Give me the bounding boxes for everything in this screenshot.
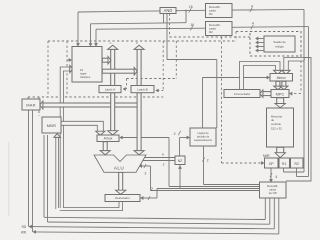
svg-text:Lógica de: Lógica de bbox=[197, 131, 209, 135]
svg-text:Incrementador: Incrementador bbox=[234, 92, 251, 96]
svg-text:Latch A: Latch A bbox=[105, 88, 116, 92]
svg-text:decisão de: decisão de bbox=[197, 134, 210, 138]
svg-text:MAR: MAR bbox=[26, 102, 36, 107]
svg-text:R1: R1 bbox=[282, 162, 286, 166]
svg-text:NZ: NZ bbox=[178, 159, 182, 163]
svg-text:Deslocador: Deslocador bbox=[115, 196, 130, 200]
svg-text:MIR: MIR bbox=[263, 154, 270, 158]
svg-text:2: 2 bbox=[174, 132, 176, 136]
svg-text:OP: OP bbox=[269, 162, 275, 166]
svg-text:16: 16 bbox=[190, 23, 194, 27]
svg-text:2: 2 bbox=[144, 171, 146, 175]
svg-text:WR: WR bbox=[21, 230, 27, 234]
svg-text:B: B bbox=[136, 41, 138, 45]
svg-text:2: 2 bbox=[207, 159, 209, 163]
svg-text:ALU: ALU bbox=[114, 165, 124, 170]
svg-text:controle: controle bbox=[271, 122, 281, 126]
svg-text:A: A bbox=[110, 41, 112, 45]
svg-text:Mmux: Mmux bbox=[277, 76, 287, 80]
svg-text:relógio: relógio bbox=[275, 45, 284, 49]
svg-text:AND: AND bbox=[164, 8, 173, 13]
svg-text:MPC: MPC bbox=[276, 91, 285, 96]
svg-text:Z: Z bbox=[163, 162, 165, 166]
svg-text:MBR: MBR bbox=[47, 123, 57, 128]
svg-text:Amux: Amux bbox=[104, 137, 113, 141]
svg-text:de OP: de OP bbox=[269, 191, 277, 195]
svg-text:R1: R1 bbox=[209, 12, 213, 16]
svg-text:512 x 32: 512 x 32 bbox=[271, 126, 282, 130]
svg-text:16: 16 bbox=[189, 5, 193, 9]
svg-text:seqüenciamento: seqüenciamento bbox=[194, 139, 213, 142]
svg-text:4: 4 bbox=[252, 22, 254, 26]
svg-text:tradores: tradores bbox=[80, 75, 91, 79]
svg-text:Latch B: Latch B bbox=[137, 88, 148, 92]
svg-text:R2: R2 bbox=[295, 162, 299, 166]
svg-text:RD: RD bbox=[22, 225, 27, 229]
svg-text:4: 4 bbox=[275, 175, 277, 179]
svg-text:Seção de: Seção de bbox=[273, 40, 286, 44]
svg-text:R2: R2 bbox=[209, 30, 213, 34]
svg-text:N: N bbox=[162, 153, 164, 157]
svg-text:4: 4 bbox=[251, 5, 253, 9]
